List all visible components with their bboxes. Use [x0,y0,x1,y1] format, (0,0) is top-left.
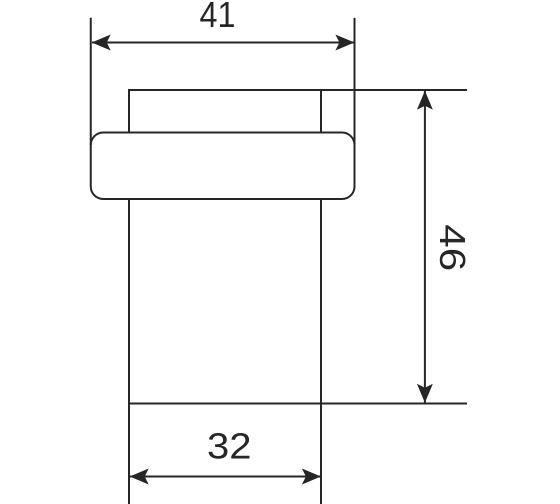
svg-text:32: 32 [207,426,252,467]
svg-text:41: 41 [200,0,236,35]
svg-text:46: 46 [432,224,473,271]
